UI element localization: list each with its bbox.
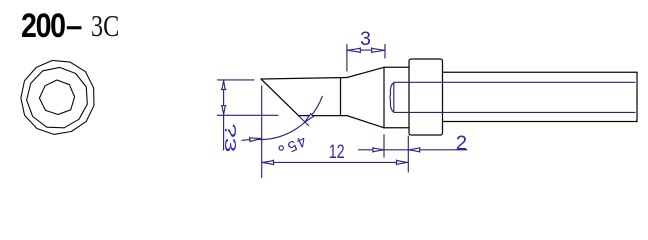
dia3 arrow up xyxy=(221,81,226,90)
dim12 left extension line xyxy=(261,86,263,178)
end-view inner polygon xyxy=(39,80,74,115)
barrel tube top xyxy=(443,71,638,73)
svg-text:?3: ?3 xyxy=(222,123,240,152)
dia3 top extension line xyxy=(218,79,255,81)
dim3 dimension line xyxy=(347,49,385,51)
tip bevel edge xyxy=(261,79,299,116)
dim12/dim2 right extension line xyxy=(407,136,409,172)
dim2 arrow pointing left xyxy=(409,147,420,152)
hidden bore top line xyxy=(394,81,635,83)
bevel extension line xyxy=(299,116,309,125)
cone bottom edge xyxy=(347,116,384,128)
dim2 arrow pointing right xyxy=(373,147,384,152)
rod junction line xyxy=(340,78,342,116)
tip rod top edge xyxy=(261,78,347,80)
barrel tube bottom xyxy=(443,121,638,123)
barrel tube end xyxy=(636,72,638,121)
svg-text:12: 12 xyxy=(329,141,345,163)
dim3 left arrow xyxy=(348,48,361,53)
dim3 right extension line xyxy=(384,45,386,59)
hidden bore end arc xyxy=(390,82,394,112)
dim12 right arrow xyxy=(397,160,408,165)
angle arrow at vertical side xyxy=(242,137,261,142)
dia3 arrow down xyxy=(221,106,226,115)
dim12 left arrow xyxy=(263,160,274,165)
nut xyxy=(409,59,443,135)
dim2 left extension line xyxy=(383,135,385,157)
angle arc xyxy=(252,96,322,139)
collar cylinder top xyxy=(384,66,409,68)
end-view middle polygon xyxy=(27,67,88,127)
collar cylinder bottom xyxy=(384,127,409,129)
hidden bore bottom line xyxy=(394,111,635,113)
title dash xyxy=(67,26,82,29)
end-view outer polygon xyxy=(21,60,94,134)
angle arrow at bevel side xyxy=(305,114,314,123)
cone top edge xyxy=(347,67,384,77)
dim2 dimension line xyxy=(359,149,468,151)
dim3 right arrow xyxy=(372,48,385,53)
dim3 left extension line xyxy=(346,45,348,72)
cone base line xyxy=(383,67,385,128)
dia3 bottom extension line xyxy=(217,114,278,116)
dim12 dimension line xyxy=(262,161,409,163)
dia3 dimension line xyxy=(223,80,225,150)
title 200-3C xyxy=(21,9,65,43)
svg-text:2: 2 xyxy=(456,131,467,154)
angle 45 label degree circle xyxy=(279,146,283,150)
tip rod bottom edge xyxy=(299,115,348,117)
svg-text:3: 3 xyxy=(360,28,371,50)
